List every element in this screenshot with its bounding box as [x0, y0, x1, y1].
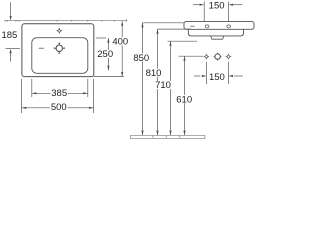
dim 150 bottom extension lines: [206, 62, 228, 84]
svg-text:850: 850: [133, 53, 149, 64]
basin deck (side view): [184, 22, 254, 30]
svg-text:185: 185: [1, 30, 17, 41]
svg-text:400: 400: [112, 37, 128, 48]
dim 610: [179, 56, 204, 135]
svg-text:150: 150: [209, 72, 225, 83]
bottom extension line (front view): [94, 76, 124, 78]
wall line (front view): [5, 20, 127, 22]
floor strip: [131, 135, 205, 138]
svg-text:710: 710: [155, 80, 171, 91]
tap hole mark: [56, 28, 62, 34]
dim 710: [168, 41, 198, 135]
dim 385: [32, 92, 88, 94]
fixing hole circle center: [214, 53, 222, 61]
svg-text:500: 500: [51, 102, 67, 113]
svg-text:810: 810: [146, 68, 162, 79]
svg-text:610: 610: [176, 94, 192, 105]
dim 400: [121, 21, 123, 76]
fixing hole diamond left: [204, 54, 210, 60]
basin inner bowl (front view): [32, 38, 88, 74]
drain mark: [56, 45, 62, 51]
deck dash (side view): [190, 25, 195, 27]
fixing hole diamond right: [226, 54, 232, 60]
svg-text:250: 250: [97, 49, 113, 60]
drain stub (side view): [211, 36, 225, 39]
svg-text:385: 385: [51, 88, 67, 99]
dim 500 extension lines: [22, 79, 94, 113]
basin body (side view): [188, 29, 243, 36]
dim 385 extension lines: [32, 79, 88, 97]
dim 810: [156, 29, 191, 135]
dim 500: [22, 107, 94, 109]
svg-text:150: 150: [209, 0, 225, 11]
dim 850: [141, 23, 184, 135]
dim 185: [6, 2, 21, 61]
deck holes (side view): [205, 25, 230, 28]
overflow dash: [39, 47, 44, 49]
basin outer rim (front view): [22, 24, 94, 77]
dim 250: [96, 38, 110, 70]
dim 150 bottom: [194, 75, 243, 77]
dim 150 top (side view): [193, 2, 242, 22]
